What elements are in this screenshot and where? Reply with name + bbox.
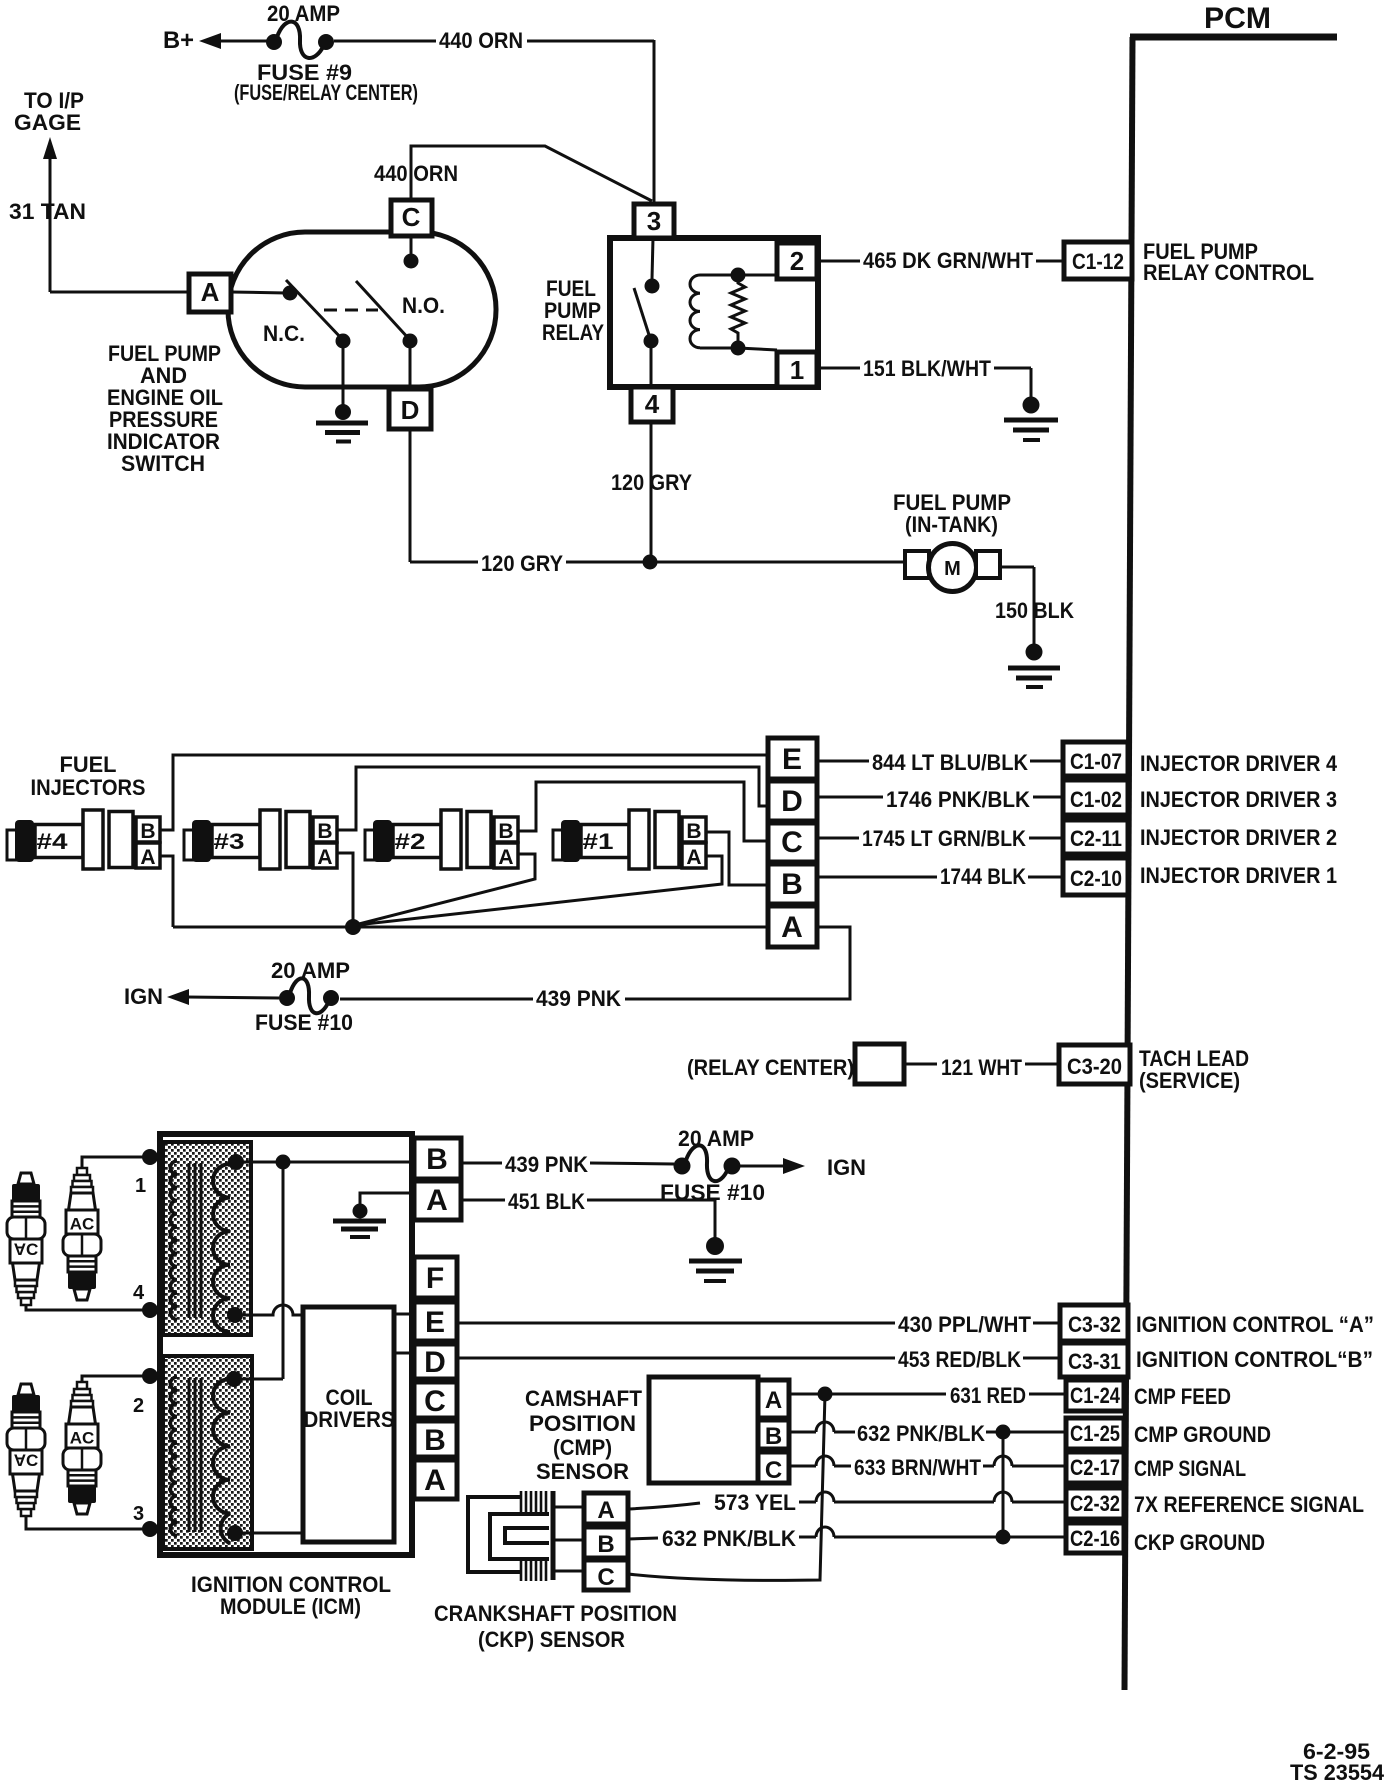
spark plug 1 (inverted)	[7, 1173, 45, 1305]
injector harness connector D	[768, 781, 817, 821]
ICM pin A (lower)	[414, 1460, 457, 1499]
CMP sensor box	[649, 1377, 758, 1483]
injector harness connector C	[768, 823, 817, 862]
wire A to NC pivot	[231, 292, 286, 293]
wire plug1 to ICM (4)	[26, 1302, 158, 1318]
svg-text:E: E	[425, 1306, 445, 1339]
terminal C box	[391, 200, 432, 236]
svg-text:440 ORN: 440 ORN	[374, 161, 458, 186]
svg-text:SENSOR: SENSOR	[536, 1459, 629, 1484]
connector C2-11	[1063, 820, 1128, 854]
svg-text:IGNITION CONTROL “A”: IGNITION CONTROL “A”	[1136, 1312, 1374, 1337]
terminal A box	[189, 274, 231, 312]
wire C to 440 ORN vertical	[411, 146, 652, 201]
wire coil1 low with hop to coil drivers	[227, 1305, 303, 1323]
svg-text:A: A	[201, 277, 220, 307]
wire 633 BRN/WHT	[789, 1456, 1066, 1466]
svg-text:#4: #4	[37, 829, 69, 854]
svg-text:C2-17: C2-17	[1070, 1455, 1120, 1480]
wire plug4 to ICM (2)	[82, 1368, 158, 1384]
node below C	[404, 236, 419, 269]
wire injector 1 B to B	[706, 832, 768, 885]
CMP pin B	[758, 1420, 789, 1450]
terminal D box	[389, 348, 431, 429]
svg-text:B: B	[424, 1424, 446, 1457]
svg-text:844 LT BLU/BLK: 844 LT BLU/BLK	[872, 750, 1028, 775]
label FUEL INJECTORS	[31, 752, 146, 800]
svg-text:150 BLK: 150 BLK	[995, 598, 1074, 623]
svg-text:INJECTOR DRIVER 4: INJECTOR DRIVER 4	[1140, 751, 1338, 776]
wire to fuse 10b	[590, 1163, 674, 1164]
svg-text:(FUSE/RELAY CENTER): (FUSE/RELAY CENTER)	[234, 80, 418, 105]
svg-text:1744 BLK: 1744 BLK	[940, 864, 1026, 889]
relay pin 4	[631, 387, 673, 422]
relay switch contacts	[634, 238, 660, 562]
fuel pump motor M	[905, 544, 1000, 592]
svg-text:631 RED: 631 RED	[950, 1383, 1026, 1408]
wire 31 TAN with up arrow	[43, 137, 190, 292]
svg-text:GAGE: GAGE	[14, 110, 81, 135]
svg-text:632 PNK/BLK: 632 PNK/BLK	[662, 1526, 796, 1551]
svg-text:C1-12: C1-12	[1072, 249, 1124, 274]
wire 632 PNK/BLK (CMP)	[789, 1422, 1066, 1440]
svg-text:RELAY: RELAY	[542, 320, 604, 345]
wire 451 BLK to ground	[587, 1200, 715, 1238]
svg-text:31 TAN: 31 TAN	[9, 199, 86, 224]
svg-text:C3-20: C3-20	[1067, 1054, 1122, 1079]
label CAMSHAFT POSITION (CMP) SENSOR	[525, 1386, 643, 1484]
svg-text:1: 1	[135, 1175, 146, 1197]
svg-text:2: 2	[133, 1395, 144, 1417]
injector #1	[553, 810, 706, 869]
svg-text:B: B	[765, 1423, 782, 1450]
switch N.O.	[356, 281, 418, 349]
svg-text:INJECTOR DRIVER 2: INJECTOR DRIVER 2	[1140, 825, 1337, 850]
svg-text:C2-16: C2-16	[1070, 1526, 1120, 1551]
svg-text:(SERVICE): (SERVICE)	[1139, 1068, 1240, 1093]
wire coil1 to ICM B with node	[228, 1154, 414, 1170]
wire 120 GRY horizontal	[410, 429, 906, 570]
svg-text:4: 4	[133, 1282, 145, 1304]
svg-text:439 PNK: 439 PNK	[536, 986, 621, 1011]
ICM pin D	[414, 1344, 457, 1379]
wire 150 BLK	[1000, 567, 1034, 644]
label switch name	[107, 341, 223, 476]
svg-text:20 AMP: 20 AMP	[678, 1126, 754, 1151]
svg-text:MODULE (ICM): MODULE (ICM)	[220, 1594, 361, 1619]
svg-text:B: B	[781, 868, 803, 901]
node injector common	[345, 919, 361, 935]
svg-text:RELAY CONTROL: RELAY CONTROL	[1143, 260, 1314, 285]
connector C1-24	[1066, 1380, 1124, 1411]
svg-text:7X REFERENCE SIGNAL: 7X REFERENCE SIGNAL	[1134, 1492, 1364, 1517]
ICM pin B (top)	[414, 1138, 461, 1179]
svg-text:1746 PNK/BLK: 1746 PNK/BLK	[886, 787, 1030, 812]
fuse F10 (right)	[674, 1145, 741, 1181]
svg-text:4: 4	[645, 389, 660, 419]
wire injector 4 B to E	[160, 755, 768, 830]
wire B+ arrow	[199, 33, 268, 49]
connector C3-31	[1060, 1343, 1128, 1377]
relay pin 3	[634, 204, 674, 238]
wire coil2 low to coil drivers	[227, 1525, 303, 1541]
svg-text:451 BLK: 451 BLK	[508, 1189, 585, 1214]
label TACH LEAD (SERVICE)	[1139, 1046, 1249, 1093]
CKP pin B	[584, 1527, 628, 1558]
svg-text:(RELAY CENTER): (RELAY CENTER)	[687, 1055, 854, 1080]
relay pin 2	[777, 243, 817, 279]
svg-text:CAMSHAFT: CAMSHAFT	[525, 1386, 643, 1411]
ground at 451 BLK	[689, 1237, 742, 1281]
wire injector 4 A to common	[160, 856, 173, 927]
svg-text:C: C	[765, 1457, 782, 1484]
injector #4	[7, 810, 160, 869]
ICM pin F	[414, 1257, 457, 1298]
svg-text:CMP GROUND: CMP GROUND	[1134, 1422, 1271, 1447]
svg-text:IGNITION CONTROL“B”: IGNITION CONTROL“B”	[1136, 1347, 1373, 1372]
wire 439 PNK to fuse 10	[340, 998, 533, 1001]
ICM coil 1 block	[163, 1142, 251, 1335]
fuel pump relay box	[610, 238, 818, 387]
svg-text:A: A	[426, 1184, 448, 1217]
switch N.C.	[283, 280, 351, 349]
svg-text:1745 LT GRN/BLK: 1745 LT GRN/BLK	[862, 826, 1026, 851]
svg-text:3: 3	[647, 206, 661, 236]
svg-text:#1: #1	[583, 829, 614, 854]
svg-text:A: A	[597, 1497, 614, 1524]
wire 430 PPL/WHT	[457, 1322, 1060, 1325]
svg-text:INJECTOR DRIVER 3: INJECTOR DRIVER 3	[1140, 787, 1337, 812]
injector #3	[184, 810, 337, 869]
wire ICM B 439 PNK	[461, 1162, 502, 1165]
svg-text:633 BRN/WHT: 633 BRN/WHT	[854, 1455, 981, 1480]
svg-text:INJECTOR DRIVER 1: INJECTOR DRIVER 1	[1140, 863, 1337, 888]
svg-text:C3-31: C3-31	[1068, 1349, 1121, 1374]
svg-text:B: B	[426, 1143, 448, 1176]
wire injector 2 A to common	[355, 854, 535, 925]
relay pin 1	[777, 352, 817, 387]
ground at N.C. contact	[316, 348, 368, 442]
svg-text:CMP FEED: CMP FEED	[1134, 1384, 1231, 1409]
svg-text:573 YEL: 573 YEL	[714, 1490, 796, 1515]
svg-text:FUSE #10: FUSE #10	[255, 1010, 353, 1035]
svg-text:453 RED/BLK: 453 RED/BLK	[898, 1347, 1021, 1372]
svg-text:632 PNK/BLK: 632 PNK/BLK	[857, 1421, 985, 1446]
svg-text:C2-32: C2-32	[1070, 1491, 1120, 1516]
wire 844 LT BLU/BLK	[817, 760, 1063, 763]
label FUEL PUMP RELAY	[542, 276, 604, 345]
svg-text:440 ORN: 440 ORN	[439, 28, 523, 53]
svg-text:PCM: PCM	[1204, 2, 1271, 35]
svg-text:20 AMP: 20 AMP	[267, 1, 340, 26]
svg-text:(CKP) SENSOR: (CKP) SENSOR	[478, 1627, 625, 1652]
svg-text:DRIVERS: DRIVERS	[304, 1407, 395, 1432]
ICM internal ground	[333, 1193, 414, 1237]
relay center box	[855, 1044, 904, 1084]
fuse F9 20A	[266, 22, 334, 58]
svg-text:SWITCH: SWITCH	[121, 451, 205, 476]
svg-text:1: 1	[790, 355, 804, 385]
svg-text:3: 3	[133, 1503, 144, 1525]
label CRANKSHAFT POSITION (CKP) SENSOR	[434, 1601, 677, 1652]
ICM coil 2 block	[163, 1356, 252, 1549]
fuel pump / oil pressure switch oval	[228, 232, 496, 387]
ICM pin C	[414, 1382, 457, 1418]
injector harness connector E	[768, 738, 817, 779]
svg-text:C1-02: C1-02	[1070, 787, 1122, 812]
svg-text:2: 2	[790, 246, 804, 276]
svg-text:CMP SIGNAL: CMP SIGNAL	[1134, 1456, 1246, 1481]
wire coil2 top to feed	[226, 1371, 283, 1387]
label TO I/P GAGE	[14, 88, 84, 135]
svg-text:CRANKSHAFT POSITION: CRANKSHAFT POSITION	[434, 1601, 677, 1626]
wire 453 RED/BLK	[457, 1357, 1060, 1360]
wire CMP ground link	[1002, 1432, 1005, 1537]
ground at relay pin 1	[1004, 397, 1058, 441]
CKP pin A	[584, 1493, 628, 1524]
svg-text:TS 23554: TS 23554	[1290, 1760, 1385, 1784]
svg-text:M: M	[944, 558, 961, 580]
svg-text:FUEL: FUEL	[60, 752, 117, 777]
svg-text:C: C	[597, 1564, 614, 1591]
wire injector 3 A to common	[337, 853, 353, 921]
wire coil drivers to E	[394, 1313, 414, 1316]
svg-text:B+: B+	[163, 27, 194, 54]
svg-text:A: A	[765, 1387, 782, 1414]
spark plug 2	[63, 1168, 101, 1300]
injector harness connector B	[768, 864, 817, 904]
svg-text:N.C.: N.C.	[263, 321, 305, 346]
ICM outer box	[160, 1134, 412, 1555]
label FUEL PUMP RELAY CONTROL	[1143, 239, 1314, 285]
svg-text:INJECTORS: INJECTORS	[31, 775, 146, 800]
svg-text:121 WHT: 121 WHT	[941, 1055, 1022, 1080]
svg-text:A: A	[781, 911, 803, 944]
relay resistor	[731, 275, 745, 348]
dashed mechanical link	[324, 309, 378, 312]
wire 631 RED	[789, 1387, 1066, 1402]
wire 632 PNK/BLK (CKP)	[628, 1527, 1066, 1545]
svg-text:(IN-TANK): (IN-TANK)	[905, 512, 998, 537]
svg-text:F: F	[426, 1262, 444, 1295]
wire IGN arrow (left)	[167, 989, 279, 1005]
connector C3-32	[1060, 1305, 1128, 1341]
wire injector 2 B to C	[518, 782, 768, 841]
wire 440 ORN to corner	[334, 40, 654, 202]
wire 121 WHT	[904, 1063, 1059, 1066]
label IGNITION CONTROL MODULE (ICM)	[191, 1572, 391, 1619]
PCM boundary line	[1125, 37, 1338, 1690]
svg-text:C3-32: C3-32	[1068, 1312, 1121, 1337]
connector C1-25	[1066, 1418, 1124, 1449]
fuse F10 (left)	[279, 978, 339, 1013]
wire ICM A 451 BLK	[461, 1199, 505, 1202]
svg-text:IGN: IGN	[124, 984, 163, 1009]
wire 1745 LT GRN/BLK	[817, 837, 1063, 840]
svg-text:430 PPL/WHT: 430 PPL/WHT	[898, 1312, 1032, 1337]
injector harness connector A	[768, 906, 817, 947]
svg-text:#3: #3	[214, 829, 245, 854]
connector C2-16	[1066, 1523, 1124, 1553]
svg-text:POSITION: POSITION	[529, 1411, 636, 1436]
wire injector 3 B to D	[337, 767, 768, 830]
svg-text:N.O.: N.O.	[402, 293, 445, 318]
coil nodes	[731, 268, 778, 356]
svg-text:D: D	[401, 395, 420, 425]
connector C2-10	[1063, 858, 1128, 895]
svg-text:151 BLK/WHT: 151 BLK/WHT	[863, 356, 991, 381]
svg-text:C: C	[424, 1385, 446, 1418]
svg-text:C2-11: C2-11	[1070, 826, 1122, 851]
svg-text:120 GRY: 120 GRY	[611, 470, 692, 495]
wire 1744 BLK	[817, 876, 1063, 879]
svg-text:#2: #2	[395, 829, 426, 854]
svg-text:C: C	[402, 202, 421, 232]
connector C3-20	[1059, 1045, 1130, 1084]
wire common A line	[173, 926, 768, 929]
CKP sensor symbol	[468, 1491, 584, 1581]
svg-text:439 PNK: 439 PNK	[505, 1152, 588, 1177]
ICM pin E	[414, 1302, 457, 1341]
svg-text:465 DK GRN/WHT: 465 DK GRN/WHT	[863, 248, 1034, 273]
CMP pin A	[758, 1380, 789, 1418]
coil drivers box	[303, 1307, 395, 1542]
svg-text:B: B	[597, 1531, 614, 1558]
svg-text:(CMP): (CMP)	[553, 1435, 612, 1460]
wire coil drivers to D	[394, 1352, 414, 1355]
connector C1-12	[1064, 242, 1132, 279]
svg-text:C1-07: C1-07	[1070, 749, 1122, 774]
CKP pin C	[584, 1560, 628, 1591]
svg-text:C1-24: C1-24	[1070, 1383, 1121, 1408]
svg-text:C1-25: C1-25	[1070, 1421, 1120, 1446]
wire 573 YEL	[628, 1492, 1066, 1509]
ICM pin A (top)	[414, 1181, 461, 1220]
ICM pin B (lower)	[414, 1421, 457, 1457]
wire CKP C to 631 RED feed	[628, 1394, 825, 1580]
svg-text:120 GRY: 120 GRY	[481, 551, 563, 576]
svg-text:A: A	[424, 1464, 446, 1497]
wire 151 BLK/WHT	[817, 368, 1031, 397]
connector C1-02	[1063, 780, 1128, 815]
wire 1746 PNK/BLK	[817, 796, 1063, 799]
svg-text:IGN: IGN	[827, 1155, 866, 1180]
spark plug 3 (inverted)	[7, 1384, 45, 1516]
wire plug2 to ICM (1)	[82, 1149, 158, 1168]
connector C2-32	[1066, 1488, 1124, 1519]
svg-text:CKP GROUND: CKP GROUND	[1134, 1530, 1265, 1555]
ground at fuel pump	[1008, 644, 1060, 688]
wire plug3 to ICM (3)	[26, 1516, 158, 1537]
svg-text:20 AMP: 20 AMP	[271, 958, 350, 983]
label FUEL PUMP (IN-TANK)	[893, 490, 1011, 537]
svg-text:C2-10: C2-10	[1070, 866, 1122, 891]
wire 439 PNK feed vertical	[282, 1162, 285, 1379]
svg-text:C: C	[781, 826, 803, 859]
injector #2	[365, 810, 518, 869]
relay coil	[690, 275, 738, 348]
CMP pin C	[758, 1452, 789, 1484]
svg-text:D: D	[781, 785, 803, 818]
connector C1-07	[1063, 742, 1128, 776]
connector C2-17	[1066, 1452, 1124, 1483]
wire 465 DK GRN/WHT	[817, 260, 1064, 263]
wire IGN arrow (right)	[740, 1158, 805, 1174]
spark plug 4	[63, 1382, 101, 1514]
svg-text:E: E	[782, 743, 802, 776]
wire injector 1 A to common	[356, 856, 722, 925]
svg-text:D: D	[424, 1346, 446, 1379]
wire connector A to 439 PNK	[625, 927, 850, 999]
